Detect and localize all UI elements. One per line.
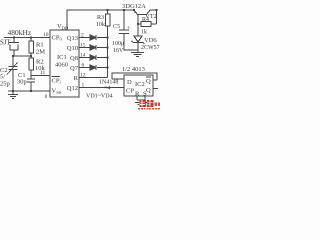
svg-text:VSS: VSS xyxy=(52,88,62,96)
svg-text:100μ: 100μ xyxy=(112,41,124,47)
svg-text:15: 15 xyxy=(80,43,86,49)
svg-text:16V: 16V xyxy=(113,48,124,54)
svg-text:CP: CP xyxy=(126,88,134,95)
svg-text:×4: ×4 xyxy=(104,86,110,92)
svg-text:C5: C5 xyxy=(113,24,120,30)
svg-text:R4: R4 xyxy=(142,17,149,23)
svg-text:Q: Q xyxy=(146,87,151,94)
svg-text:S: S xyxy=(143,91,147,98)
svg-text:25p: 25p xyxy=(0,81,10,88)
svg-text:1: 1 xyxy=(82,83,85,89)
svg-text:R1: R1 xyxy=(36,42,44,49)
svg-text:R: R xyxy=(135,91,140,98)
svg-text:IC2: IC2 xyxy=(135,81,145,88)
svg-text:1k: 1k xyxy=(141,30,147,36)
svg-text:CPi: CPi xyxy=(52,78,62,85)
svg-text:R: R xyxy=(74,75,79,82)
svg-text:8: 8 xyxy=(45,94,48,100)
svg-text:6: 6 xyxy=(82,63,85,69)
svg-text:4060: 4060 xyxy=(55,62,68,69)
svg-text:CP0: CP0 xyxy=(52,35,63,42)
svg-text:10k: 10k xyxy=(96,22,105,28)
svg-text:VD1~VD4: VD1~VD4 xyxy=(86,94,113,100)
svg-text:Q13: Q13 xyxy=(67,35,78,42)
svg-text:2: 2 xyxy=(81,33,84,39)
svg-text:R3: R3 xyxy=(97,15,104,21)
svg-text:Q8: Q8 xyxy=(70,55,78,62)
svg-text:1/2 4013: 1/2 4013 xyxy=(122,66,145,73)
svg-text:Q12: Q12 xyxy=(67,85,78,92)
svg-text:IC1: IC1 xyxy=(57,54,67,61)
svg-text:2CW57: 2CW57 xyxy=(141,45,160,51)
svg-text:SJT: SJT xyxy=(0,40,11,47)
svg-text:11: 11 xyxy=(40,70,46,76)
svg-text:10: 10 xyxy=(43,32,49,38)
svg-text:Q7: Q7 xyxy=(70,65,79,72)
svg-text:+: + xyxy=(127,26,131,32)
svg-text:3DG12A: 3DG12A xyxy=(122,3,146,10)
svg-text:480kHz: 480kHz xyxy=(8,28,32,37)
svg-text:Q10: Q10 xyxy=(67,45,78,52)
svg-text:30p: 30p xyxy=(17,79,27,86)
svg-text:2M: 2M xyxy=(36,49,45,56)
svg-text:14: 14 xyxy=(80,53,86,59)
svg-text:D: D xyxy=(127,79,132,86)
svg-text:12: 12 xyxy=(80,73,86,79)
svg-text:5/: 5/ xyxy=(0,74,5,81)
svg-text:Q: Q xyxy=(146,78,151,85)
svg-text:VD6: VD6 xyxy=(144,37,157,44)
